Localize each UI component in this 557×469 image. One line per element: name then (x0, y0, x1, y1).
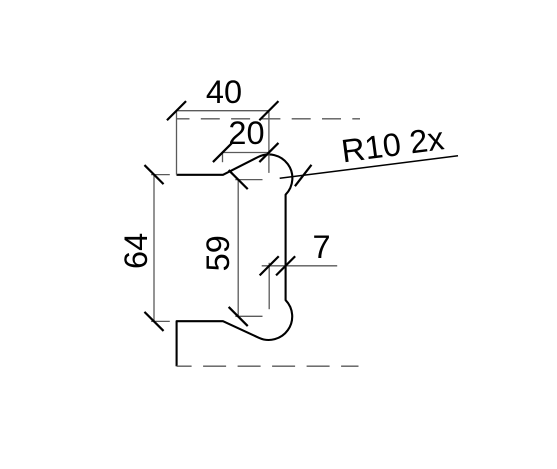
dim 7: right tick (276, 256, 295, 275)
dim 59: bottom extension line (to bottom arc center) (235, 315, 262, 317)
dim 40: right tick (259, 101, 278, 120)
dim 59: top extension line (to top arc center) (235, 179, 262, 181)
svg-text:64: 64 (118, 233, 154, 269)
svg-text:7: 7 (312, 229, 330, 265)
svg-text:20: 20 (228, 115, 264, 151)
dim 59: bottom tick (229, 307, 248, 326)
dim 7: dimension line (262, 265, 338, 267)
part outline (top edge, slant, R10 top arc, right edge, R10 bottom arc, slant, bottom edge, left drop) (177, 154, 293, 366)
phantom dashed line top (177, 118, 360, 120)
dim 40: dimension line (177, 110, 269, 112)
dim 40: left extension line (down to part corner) (176, 111, 178, 175)
dim 64: bottom extension line (151, 320, 170, 322)
dim 20: right tick (259, 143, 278, 162)
svg-text:59: 59 (200, 235, 236, 271)
dim 20: left tick (213, 143, 232, 162)
dim 64: bottom tick (144, 312, 163, 331)
dim 20: left extension stub (222, 153, 224, 163)
dim 64: dimension line (153, 175, 155, 322)
dim 40: left tick (167, 101, 186, 120)
radius leader line R10 (280, 156, 458, 179)
radius leader tick on arc (295, 165, 312, 186)
dim 20: dimension line (223, 152, 269, 154)
dim 59: top tick (229, 170, 248, 189)
dim 64: top extension line (151, 174, 170, 176)
dim 40/20: right extension / centerline to top arc center (268, 111, 270, 173)
svg-text:40: 40 (206, 74, 242, 110)
phantom dashed line bottom (177, 365, 359, 367)
dim 59: dimension line (237, 180, 239, 317)
dim 7: extension / centerline to bottom arc center (268, 263, 270, 309)
dim 7: left tick (260, 256, 279, 275)
dim 64: top tick (144, 165, 163, 184)
